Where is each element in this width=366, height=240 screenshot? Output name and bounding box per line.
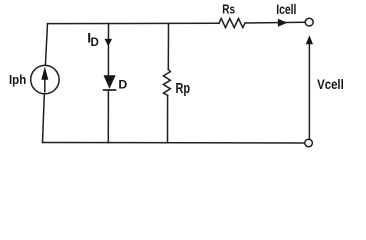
wire top-left segment — [48, 22, 220, 24]
voltage arrow Vcell — [306, 35, 313, 139]
terminal bottom (negative output) — [305, 139, 313, 147]
wire diode branch lower — [107, 90, 109, 143]
svg-text:Vcell: Vcell — [317, 77, 344, 92]
wire bottom — [43, 142, 305, 145]
svg-text:Rp: Rp — [176, 81, 191, 97]
wire left branch lower — [43, 94, 45, 143]
wire Rp branch lower — [167, 95, 169, 143]
svg-text:D: D — [91, 37, 99, 49]
wire top-right segment — [245, 21, 305, 24]
svg-text:Iph: Iph — [9, 72, 26, 87]
svg-text:D: D — [118, 77, 127, 91]
current source Iph — [31, 65, 59, 93]
svg-text:Rs: Rs — [222, 1, 235, 16]
diode D — [104, 75, 116, 90]
resistor Rp — [163, 70, 170, 96]
wire Rp branch upper — [167, 23, 169, 69]
resistor Rs — [219, 19, 245, 28]
terminal top (positive output) — [305, 18, 313, 26]
current arrow Icell — [278, 19, 287, 27]
label ID — [87, 30, 99, 50]
wire left branch upper — [45, 24, 47, 66]
current arrow ID — [105, 39, 113, 46]
wire diode branch upper — [107, 24, 109, 76]
svg-text:Icell: Icell — [276, 2, 296, 17]
